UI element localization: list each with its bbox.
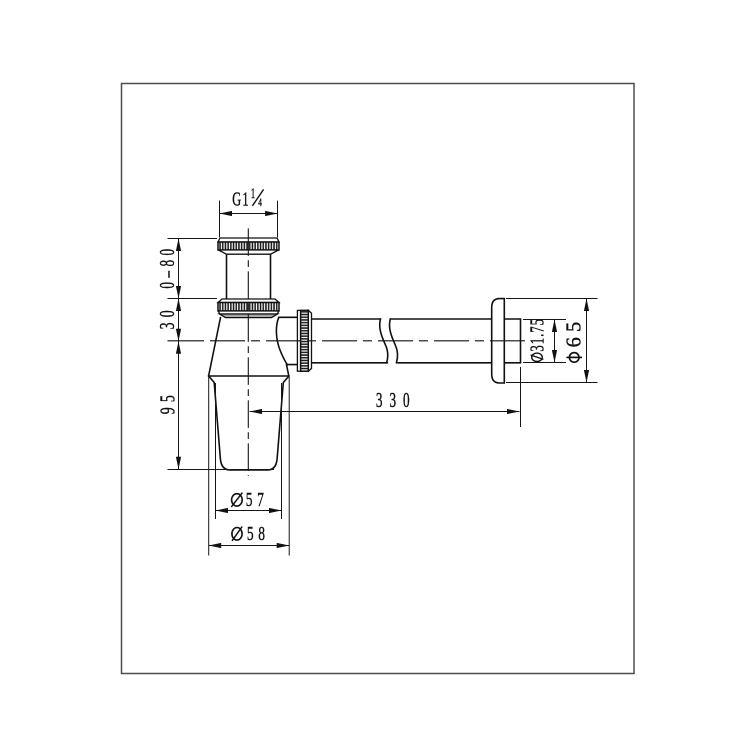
svg-text:57: 57 bbox=[246, 488, 269, 510]
svg-text:30: 30 bbox=[155, 305, 179, 329]
svg-text:G1: G1 bbox=[232, 187, 250, 210]
svg-text:1: 1 bbox=[251, 185, 256, 202]
svg-text:0–80: 0–80 bbox=[155, 245, 179, 289]
svg-text:58: 58 bbox=[247, 522, 270, 544]
svg-text:65: 65 bbox=[561, 317, 586, 348]
svg-text:31.75: 31.75 bbox=[526, 318, 549, 352]
svg-text:330: 330 bbox=[376, 388, 417, 412]
svg-text:4: 4 bbox=[258, 197, 262, 210]
svg-text:95: 95 bbox=[155, 390, 179, 414]
